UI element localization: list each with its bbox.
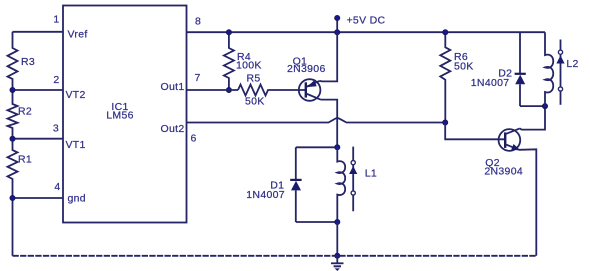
svg-text:+5V DC: +5V DC [347, 15, 386, 27]
svg-text:7: 7 [195, 72, 201, 84]
resistor R1 [8, 139, 18, 198]
svg-text:100K: 100K [236, 60, 262, 72]
svg-text:VT1: VT1 [66, 139, 86, 151]
svg-text:6: 6 [191, 133, 197, 145]
node junction dot pin2 [10, 87, 15, 92]
resistor R5 [238, 85, 270, 96]
node junction dot R4 top [226, 30, 231, 35]
transistor Q2 2N3904 [499, 128, 521, 150]
svg-text:R1: R1 [18, 154, 32, 166]
wire Q2 collector to D2/L2 node [520, 106, 545, 130]
svg-text:L2: L2 [566, 58, 578, 70]
svg-text:VT2: VT2 [66, 89, 86, 101]
wire left rail below pin4 down to bottom rail [12, 198, 14, 256]
node junction dot Out2/R6/Q2 base [443, 120, 448, 125]
svg-text:Out1: Out1 [161, 81, 185, 93]
wire +5V supply stub [336, 18, 338, 32]
svg-text:2N3904: 2N3904 [484, 165, 523, 177]
wire Q1 emitter to +5V rail [320, 32, 338, 81]
ground symbol [331, 256, 344, 271]
node junction dot pin3 [10, 136, 15, 141]
node junction dot pin4 [10, 195, 15, 200]
wire pin1 Vref from left rail to IC [13, 31, 64, 33]
wire pin3 VT1 from left rail to IC [13, 138, 64, 140]
svg-text:50K: 50K [245, 96, 265, 108]
svg-text:1: 1 [53, 14, 59, 26]
node junction dot R6 top [443, 30, 448, 35]
wire pin2 VT2 from left rail to IC [13, 89, 64, 91]
wire +5V top rail from IC pin8 to L2 [187, 31, 546, 33]
node junction dot D2/L2/Q2 collector [542, 104, 547, 109]
wire R5 to Q1 base [270, 89, 306, 91]
svg-text:R5: R5 [247, 73, 261, 85]
diode D2 1N4007 [515, 32, 526, 106]
transistor Q1 2N3906 [299, 79, 321, 101]
svg-text:50K: 50K [454, 60, 474, 72]
svg-text:3: 3 [53, 123, 59, 135]
node +5V terminal dot [335, 15, 340, 20]
L1 relay contact line with terminals and arrow [349, 147, 357, 212]
resistor R3 [8, 32, 18, 90]
svg-text:R3: R3 [21, 56, 35, 68]
svg-text:L1: L1 [365, 168, 377, 180]
svg-text:R2: R2 [18, 106, 32, 118]
wire Out1 pin7 line from IC to R5 [187, 89, 239, 91]
wire bottom ground rail dashed [13, 255, 537, 257]
wire D1 bottom to L1 bottom node [296, 221, 338, 223]
svg-text:Vref: Vref [68, 29, 88, 41]
svg-text:1N4007: 1N4007 [471, 77, 510, 89]
svg-text:8: 8 [195, 16, 201, 28]
wire L1 top from D1 branch to main line [296, 146, 338, 148]
svg-text:1N4007: 1N4007 [246, 189, 285, 201]
wire Q2 emitter down to bottom rail [519, 149, 536, 256]
svg-text:4: 4 [54, 181, 60, 193]
svg-text:gnd: gnd [68, 193, 86, 205]
svg-text:LM56: LM56 [106, 110, 133, 122]
wire L1 bottom node to ground rail [336, 222, 338, 256]
wire Q1 collector down to L1 [321, 100, 338, 148]
inductor L2 coil [545, 32, 553, 106]
wire Q2 base from node down and right [445, 123, 505, 140]
diode D1 1N4007 [290, 147, 301, 222]
resistor R2 [8, 90, 18, 139]
node junction dot L1 top [335, 145, 340, 150]
wire D2 bottom to L2 node [520, 105, 545, 107]
svg-text:2N3906: 2N3906 [287, 63, 326, 75]
L2 relay contact line with terminals and arrow [556, 40, 564, 105]
wire Out2 pin6 line from IC with crossover hump to R6 node [187, 118, 446, 122]
svg-text:2: 2 [53, 74, 59, 86]
node junction dot R4 bottom [226, 87, 231, 92]
svg-text:Out2: Out2 [161, 123, 185, 135]
resistor R4 [224, 32, 234, 90]
wire pin4 gnd from left rail to IC [13, 197, 64, 199]
op-amp U1 IC1 LM56 body rectangle [63, 6, 187, 223]
node junction dot L1 bottom [335, 219, 340, 224]
inductor L1 coil [337, 147, 345, 222]
resistor R6 [440, 32, 450, 122]
node junction dot +5V rail [335, 30, 340, 35]
node junction dot at ground rail [335, 253, 340, 258]
